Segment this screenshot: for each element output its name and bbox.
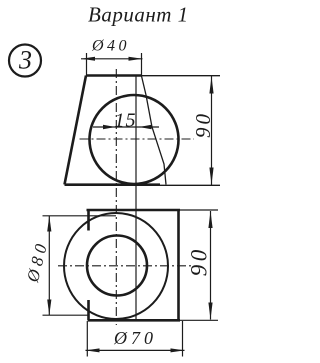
dimension 15: right arrow (outside, pointing left)	[139, 125, 152, 129]
dimension 15: dimension line	[93, 126, 159, 128]
plan view: square top edge extension (thin)	[180, 209, 218, 211]
dimension ø40: left extension line	[86, 53, 88, 76]
dimension 90 (plan view): top arrow	[208, 211, 212, 228]
problem number badge circle	[9, 45, 41, 77]
front view: left slant edge (thick)	[65, 76, 87, 185]
svg-text:Ø80: Ø80	[23, 238, 52, 285]
dimension 90 (front view): top arrow	[209, 76, 213, 93]
dimension 15: left arrow (outside, pointing right)	[103, 125, 116, 129]
sphere center projection line (thin solid, runs through both views)	[135, 76, 137, 322]
dimension ø70: right arrow	[171, 348, 185, 352]
plan view: square bottom edge extension (thin)	[180, 319, 218, 321]
plan view: square right edge (thick)	[177, 210, 180, 321]
dimension ø70: right extension line	[182, 321, 184, 357]
plan view: inner circle (thick)	[87, 236, 147, 296]
dimension ø40: right arrow	[129, 57, 143, 61]
cone axis center line (dash-dot, runs through both views)	[115, 69, 117, 325]
dimension 90 (front view): bottom arrow	[209, 168, 213, 185]
dimension 90 (plan view): dimension line	[210, 211, 212, 320]
dimension ø80: bottom extension line	[43, 314, 89, 316]
dimension 90 (plan view): bottom arrow	[208, 303, 212, 320]
dimension ø80: dimension line	[48, 216, 50, 315]
svg-text:3: 3	[18, 46, 32, 75]
dimension ø80: top arrow	[47, 216, 51, 232]
front view: sphere outline circle (thick)	[90, 95, 179, 184]
plan view: big circle ø80 (medium)	[64, 213, 168, 319]
front view: bottom edge extension to 90-dim (thin)	[160, 184, 220, 186]
front view: top edge extension to 90-dim (thin)	[142, 75, 221, 77]
front view: top edge (thick)	[86, 74, 142, 77]
dimension ø70: left arrow	[86, 348, 100, 352]
plan view: square left edge lower stub (thick)	[87, 300, 90, 321]
front view: bottom edge (thick)	[65, 183, 161, 186]
dimension ø70: dimension line	[86, 349, 185, 351]
plan view: square top edge (thick)	[87, 209, 181, 212]
svg-text:Ø40: Ø40	[91, 38, 130, 55]
dimension ø80: top extension line	[43, 215, 117, 217]
plan view: square left edge upper stub (thick)	[87, 210, 90, 231]
svg-text:Вариант 1: Вариант 1	[88, 2, 189, 26]
dimension ø40: left arrow	[81, 57, 95, 61]
plan view: square bottom edge (thick)	[88, 319, 180, 322]
dimension ø40: right extension line	[141, 53, 143, 76]
svg-text:Ø70: Ø70	[113, 328, 157, 348]
front view: right cone generator line (thin)	[142, 76, 167, 185]
dimension 90 (front view): dimension line	[211, 76, 213, 185]
svg-text:15: 15	[115, 110, 137, 132]
dimension ø70: left extension line	[86, 321, 88, 357]
svg-text:90: 90	[191, 111, 215, 138]
dimension ø40: dimension line	[81, 58, 143, 60]
front view: horizontal center line (dash-dot)	[80, 138, 195, 140]
plan view: horizontal center line (dash-dot)	[58, 265, 191, 267]
dimension ø80: bottom arrow	[47, 300, 51, 316]
svg-text:90: 90	[187, 246, 212, 276]
